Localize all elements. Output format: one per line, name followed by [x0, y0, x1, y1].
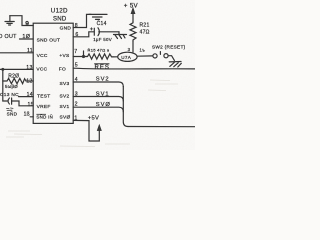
svg-text:SV2: SV2	[60, 93, 70, 99]
switch SW2 contact 1	[153, 54, 157, 58]
op-amp U7A oval	[118, 52, 137, 61]
wire pin11 VCC	[0, 52, 33, 54]
svg-text:C̄14: C̄14	[97, 20, 107, 27]
svg-text:SÑD IÑ: SÑD IÑ	[36, 114, 53, 119]
svg-text:1ß: 1ß	[24, 112, 30, 118]
svg-text:SVØ: SVØ	[60, 115, 71, 121]
svg-text:U12D: U12D	[51, 8, 68, 15]
svg-text:+VS: +VS	[59, 53, 69, 59]
wire pin13 VCC	[0, 68, 33, 70]
wire pin3 SV1 to bus	[73, 97, 123, 102]
wire pin10 SND OUT	[20, 38, 34, 40]
svg-text:1: 1	[74, 116, 77, 122]
faint bleed-through marks	[6, 80, 178, 147]
wire junction down to C13	[3, 69, 7, 101]
svg-text:5: 5	[75, 63, 78, 69]
svg-text:SV3: SV3	[60, 81, 70, 87]
capacitor C13	[8, 98, 33, 106]
svg-text:47Ω: 47Ω	[140, 29, 150, 35]
svg-text:VCC: VCC	[36, 67, 47, 73]
svg-text:R2Ø: R2Ø	[8, 73, 19, 79]
wire pin2 SV0 to bus	[73, 107, 123, 112]
svg-text:12: 12	[26, 78, 32, 84]
svg-text:TEST: TEST	[37, 93, 50, 99]
svg-text:SV1: SV1	[60, 104, 70, 110]
svg-text:SÑD: SÑD	[7, 111, 18, 117]
node R20 junction dot	[1, 68, 4, 71]
svg-text:13: 13	[26, 65, 32, 71]
svg-text:SV2: SV2	[96, 77, 110, 83]
ground GND4 switch	[169, 62, 181, 68]
svg-text:+5V: +5V	[88, 116, 99, 122]
svg-text:C13 NC: C13 NC	[0, 92, 19, 98]
svg-text:1μF 50V: 1μF 50V	[93, 37, 112, 42]
svg-text:SVØ: SVØ	[96, 102, 111, 108]
svg-text:GND: GND	[60, 26, 72, 32]
wire pin5 RES across to right edge	[73, 67, 195, 70]
wire R15 to U7A	[113, 56, 118, 58]
svg-text:D OUT: D OUT	[0, 34, 17, 40]
resistor R21	[130, 22, 136, 42]
svg-text:14: 14	[27, 92, 33, 98]
svg-text:1ъ: 1ъ	[140, 48, 146, 53]
svg-text:1Ø: 1Ø	[22, 34, 30, 40]
wire ground to pin 9	[10, 16, 33, 26]
svg-text:+ 5V: + 5V	[124, 3, 139, 10]
svg-text:7: 7	[74, 49, 77, 55]
wire pin6 +VS	[73, 32, 94, 37]
svg-text:R21: R21	[140, 23, 150, 29]
svg-text:11: 11	[27, 48, 33, 54]
IC U12 body	[33, 23, 73, 123]
wire switch to ground	[168, 56, 174, 61]
ground GND1 top-left	[5, 16, 14, 25]
svg-text:SV1: SV1	[96, 91, 110, 97]
svg-text:SND OUT: SND OUT	[37, 37, 61, 43]
ground GND2 top (3-bar)	[89, 14, 107, 19]
svg-text:3: 3	[75, 91, 78, 97]
wire pin1 to +5V arrow	[73, 120, 99, 141]
svg-text:VREF: VREF	[37, 104, 51, 110]
capacitor C14	[90, 28, 119, 36]
svg-text:RES: RES	[95, 65, 110, 71]
wire bus SV vertical	[123, 87, 128, 127]
svg-text:R̃15 47Ω ə: R̃15 47Ω ə	[87, 48, 110, 53]
svg-text:SW2 (RESET): SW2 (RESET)	[152, 44, 186, 49]
wire pin8 to ground	[73, 14, 91, 27]
svg-text:15: 15	[28, 102, 34, 108]
wire pin7	[73, 56, 86, 58]
wire stub above junction	[83, 51, 85, 57]
switch SW2 plunger	[159, 52, 161, 55]
svg-text:4: 4	[75, 77, 78, 83]
value marks under C13	[7, 108, 14, 110]
wire U7A to switch	[137, 55, 153, 57]
svg-text:8: 8	[75, 23, 78, 29]
overline for RES	[94, 63, 109, 64]
svg-text:9: 9	[25, 21, 29, 28]
wire pin4 SV2 to bus	[73, 82, 123, 87]
power +5V arrow top-right	[132, 13, 134, 22]
wire bus SV horizontal to right edge	[128, 126, 195, 128]
svg-text:U7A: U7A	[121, 55, 131, 60]
node junction dot pin7	[82, 55, 85, 58]
svg-text:FO: FO	[59, 67, 66, 73]
resistor R20	[3, 78, 26, 83]
switch SW2 contact 2	[164, 54, 168, 58]
svg-text:VCC: VCC	[37, 53, 48, 59]
wire pin14 TEST	[19, 96, 34, 98]
svg-text:3: 3	[128, 47, 131, 52]
svg-text:2: 2	[75, 102, 78, 108]
power +5V arrowhead below IC	[97, 125, 101, 131]
wire pin16 bottom-left	[30, 116, 33, 118]
ground GND3 for C14	[114, 32, 127, 39]
wire R21 to U7A	[132, 42, 134, 52]
svg-text:5ωβØ: 5ωβØ	[5, 84, 18, 89]
svg-text:6: 6	[75, 32, 78, 38]
svg-text:SND: SND	[53, 17, 67, 23]
wire pin12	[26, 80, 33, 82]
resistor R15	[86, 54, 113, 59]
